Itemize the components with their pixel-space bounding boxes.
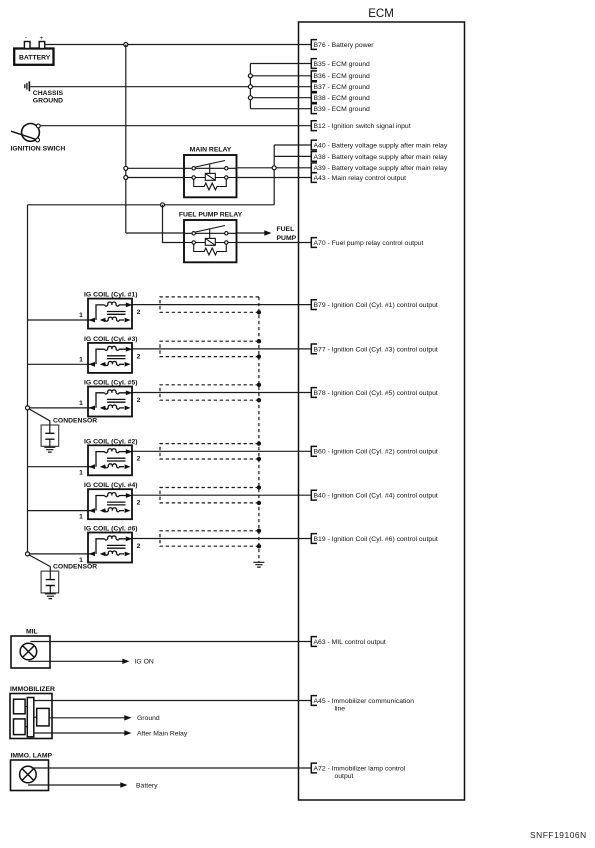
node bus B36 xyxy=(248,74,252,78)
wire B39 xyxy=(250,108,311,110)
svg-text:B38 - ECM ground: B38 - ECM ground xyxy=(314,95,371,102)
node shield1 bottom xyxy=(257,310,261,314)
wire condensor2 diagonal xyxy=(29,555,50,567)
svg-text:B60 - Ignition Coil (Cyl. #2): B60 - Ignition Coil (Cyl. #2) control ou… xyxy=(314,449,438,456)
svg-text:IG COIL (Cyl. #5): IG COIL (Cyl. #5) xyxy=(84,380,138,387)
wire B38 xyxy=(250,97,311,99)
svg-text:FUEL PUMP RELAY: FUEL PUMP RELAY xyxy=(179,212,243,219)
wire coil5 pin1 xyxy=(28,407,89,409)
svg-text:B12 - Ignition switch signal i: B12 - Ignition switch signal input xyxy=(314,123,411,130)
ignition switch S1 xyxy=(11,123,40,141)
node shield3 bottom xyxy=(257,354,261,358)
wire trunk to main relay coil xyxy=(126,177,184,179)
svg-text:Ground: Ground xyxy=(137,715,160,722)
wire immobilizer to ground arrow xyxy=(49,717,125,719)
pin A38 xyxy=(311,152,448,162)
svg-text:After Main Relay: After Main Relay xyxy=(137,730,188,737)
svg-text:2: 2 xyxy=(137,543,141,550)
node shield6 top xyxy=(257,529,261,533)
wire coil2 pin2 to B60 xyxy=(132,450,311,452)
svg-text:BATTERY: BATTERY xyxy=(19,55,51,62)
svg-text:output: output xyxy=(335,773,354,780)
svg-text:IG COIL (Cyl. #4): IG COIL (Cyl. #4) xyxy=(84,482,138,489)
pin B60 xyxy=(311,446,438,456)
shield coil6 xyxy=(160,531,259,546)
node battery arrow xyxy=(120,782,127,787)
wire fuel relay coil to A70 xyxy=(237,242,312,244)
svg-text:B35 - ECM ground: B35 - ECM ground xyxy=(314,61,371,68)
pin A45 xyxy=(311,696,414,713)
ig coil T6 cyl6 xyxy=(79,526,141,564)
node after main relay arrow xyxy=(124,730,131,735)
lamp IMMO xyxy=(11,760,49,791)
node A39 bus junction xyxy=(272,166,276,170)
svg-text:IMMOBILIZER: IMMOBILIZER xyxy=(10,686,55,693)
svg-text:CONDENSOR: CONDENSOR xyxy=(53,564,97,571)
pin B40 xyxy=(311,490,438,500)
svg-text:B37 - ECM ground: B37 - ECM ground xyxy=(314,84,371,91)
wire ECM ground bus vertical xyxy=(249,64,251,109)
pin B76 xyxy=(311,40,374,50)
wire coil5 pin2 to B78 xyxy=(132,392,311,394)
svg-text:1: 1 xyxy=(79,514,83,521)
pin B36 xyxy=(311,71,370,81)
svg-text:GROUND: GROUND xyxy=(33,98,63,105)
pin B38 xyxy=(311,93,370,103)
svg-text:1: 1 xyxy=(79,400,83,407)
svg-text:IG COIL (Cyl. #1): IG COIL (Cyl. #1) xyxy=(84,292,138,299)
ground condensor2 xyxy=(45,594,56,599)
svg-text:FUEL: FUEL xyxy=(277,226,295,233)
svg-text:IMMO. LAMP: IMMO. LAMP xyxy=(11,753,53,760)
node shield2 bottom xyxy=(257,457,261,461)
wire condensor1 diagonal xyxy=(29,409,50,421)
node ground arrow xyxy=(124,715,131,720)
svg-text:B36 - ECM ground: B36 - ECM ground xyxy=(314,73,371,80)
pin B39 xyxy=(311,104,370,114)
wire A40 xyxy=(274,144,311,146)
node shield5 bottom xyxy=(257,398,261,402)
svg-text:A63 - MIL control output: A63 - MIL control output xyxy=(314,639,386,646)
svg-text:A43 - Main relay control outpu: A43 - Main relay control output xyxy=(314,175,407,182)
ig coil T5 cyl5 xyxy=(79,380,141,417)
wire main relay coil to A43 xyxy=(237,177,312,179)
wire shield drain bus dashed xyxy=(258,297,260,562)
node bus B37 xyxy=(248,85,252,89)
svg-text:B40 - Ignition Coil (Cyl. #4): B40 - Ignition Coil (Cyl. #4) control ou… xyxy=(314,493,438,500)
wire coil4 pin1 xyxy=(28,510,89,512)
svg-text:A45 - Immobilizer communicatio: A45 - Immobilizer communication xyxy=(314,698,415,705)
svg-text:IG COIL (Cyl. #3): IG COIL (Cyl. #3) xyxy=(84,336,138,343)
svg-text:2: 2 xyxy=(137,353,141,360)
svg-text:A40 - Battery voltage supply a: A40 - Battery voltage supply after main … xyxy=(314,142,448,149)
wire immo lamp to A72 xyxy=(32,767,312,769)
ground condensor1 xyxy=(44,447,55,452)
pin A63 xyxy=(311,637,386,647)
wire coil1 pin2 to B79 xyxy=(132,304,311,306)
wire MIL to A63 xyxy=(31,641,312,643)
node battery junction xyxy=(124,43,128,47)
wire coil2 pin1 xyxy=(28,466,89,468)
capacitor C1 condensor xyxy=(41,420,59,447)
lamp MIL xyxy=(11,636,50,668)
node condensor2 tap xyxy=(26,552,30,556)
pin A40 xyxy=(311,140,448,150)
svg-text:1: 1 xyxy=(79,470,83,477)
node shield3 top xyxy=(257,339,261,343)
wire immobilizer to after main relay arrow xyxy=(34,732,125,734)
wire immo lamp to battery arrow xyxy=(28,784,121,786)
wire coil6 pin2 to B19 xyxy=(132,538,311,540)
svg-text:IG ON: IG ON xyxy=(135,659,154,666)
pin A43 xyxy=(311,173,406,183)
svg-text:1: 1 xyxy=(79,356,83,363)
label chassis ground xyxy=(33,90,64,105)
wire A38 xyxy=(274,155,311,157)
pin B78 xyxy=(311,388,438,398)
ig coil T3 cyl3 xyxy=(79,336,141,373)
immobilizer unit xyxy=(10,694,52,739)
wire B37 xyxy=(250,86,311,88)
svg-text:-: - xyxy=(25,35,27,42)
svg-text:2: 2 xyxy=(137,309,141,316)
wire trunk to fuel relay switch xyxy=(126,232,184,234)
op ECM box U1 xyxy=(299,8,465,800)
svg-text:2: 2 xyxy=(137,456,141,463)
svg-text:IGNITION SWICH: IGNITION SWICH xyxy=(11,146,66,153)
pin B77 xyxy=(311,344,438,354)
svg-text:1: 1 xyxy=(79,312,83,319)
svg-text:CONDENSOR: CONDENSOR xyxy=(53,417,97,424)
wire battery trunk vertical xyxy=(125,45,127,234)
wire coil1 pin1 xyxy=(28,319,89,321)
svg-text:A39 - Battery voltage supply a: A39 - Battery voltage supply after main … xyxy=(314,165,448,172)
svg-text:B76 - Battery power: B76 - Battery power xyxy=(314,42,375,49)
svg-text:B79 - Ignition Coil (Cyl. #1): B79 - Ignition Coil (Cyl. #1) control ou… xyxy=(314,302,438,309)
pin B37 xyxy=(311,82,370,92)
node shield4 bottom xyxy=(257,501,261,505)
wire main relay switch to A39 xyxy=(237,167,312,169)
pin B79 xyxy=(311,300,438,310)
wire after-main-relay feed horizontal xyxy=(28,204,275,206)
wire A40 A38 bus vertical xyxy=(273,145,275,205)
chassis ground symbol xyxy=(25,81,30,91)
wire coil3 pin2 to B77 xyxy=(132,348,311,350)
node fuel pump arrow xyxy=(264,230,271,235)
shield coil5 xyxy=(160,385,259,400)
pin A72 xyxy=(311,763,405,780)
wire B36 xyxy=(250,75,311,77)
svg-text:Battery: Battery xyxy=(136,782,158,789)
svg-text:2: 2 xyxy=(137,500,141,507)
shield coil2 xyxy=(160,444,259,459)
ig coil T1 cyl1 xyxy=(79,292,141,329)
ig coil T2 cyl2 xyxy=(79,438,141,476)
capacitor C2 condensor xyxy=(41,566,59,593)
wire B35 xyxy=(250,63,311,65)
shield coil3 xyxy=(160,341,259,356)
ig coil T4 cyl4 xyxy=(79,482,141,520)
node fuel relay coil feed tap xyxy=(161,203,165,207)
pin B35 xyxy=(311,59,370,69)
wire coil3 pin1 xyxy=(28,363,89,365)
pin A70 xyxy=(311,238,423,248)
svg-text:+: + xyxy=(40,35,44,42)
svg-text:CHASSIS: CHASSIS xyxy=(33,90,64,97)
wire trunk to main relay switch xyxy=(126,167,184,169)
svg-text:MIL: MIL xyxy=(26,629,38,636)
node trunk main relay switch tap xyxy=(124,166,128,170)
node condensor1 tap xyxy=(26,406,30,410)
relay K1 main relay xyxy=(184,147,237,198)
battery BT1 xyxy=(14,35,53,65)
wire fuel relay coil feed vertical xyxy=(163,205,185,243)
node shield2 top xyxy=(257,441,261,445)
pin B19 xyxy=(311,534,438,544)
node shield6 bottom xyxy=(257,544,261,548)
label fuel pump xyxy=(277,226,297,242)
wire left trunk vertical xyxy=(27,205,29,554)
wire ignition switch to B12 xyxy=(40,125,311,127)
svg-text:B19 - Ignition Coil (Cyl. #6): B19 - Ignition Coil (Cyl. #6) control ou… xyxy=(314,536,438,543)
pin B12 xyxy=(311,121,410,131)
wire immobilizer to A45 xyxy=(34,700,312,702)
svg-text:B77 - Ignition Coil (Cyl. #3): B77 - Ignition Coil (Cyl. #3) control ou… xyxy=(314,346,438,353)
svg-text:A38 - Battery voltage supply a: A38 - Battery voltage supply after main … xyxy=(314,154,448,161)
wire coil6 pin1 xyxy=(28,553,89,555)
wire MIL to IG ON xyxy=(28,660,123,662)
relay K2 fuel pump relay xyxy=(179,212,243,263)
shield coil1 xyxy=(160,297,259,312)
svg-text:B78 - Ignition Coil (Cyl. #5): B78 - Ignition Coil (Cyl. #5) control ou… xyxy=(314,390,438,397)
pin A39 xyxy=(311,163,448,173)
svg-text:IG COIL (Cyl. #2): IG COIL (Cyl. #2) xyxy=(84,438,138,445)
wire fuel relay switch to fuel pump arrow xyxy=(237,232,265,234)
svg-text:2: 2 xyxy=(137,397,141,404)
svg-text:B39 - ECM ground: B39 - ECM ground xyxy=(314,106,371,113)
node IG ON arrow xyxy=(122,659,129,664)
wire battery to B76 xyxy=(45,44,312,46)
svg-text:SNFF19106N: SNFF19106N xyxy=(530,830,587,840)
node bus B38 xyxy=(248,96,252,100)
svg-text:A72 - Immobilizer lamp control: A72 - Immobilizer lamp control xyxy=(314,765,406,772)
wire chassis ground to bus xyxy=(30,86,250,88)
wire coil4 pin2 to B40 xyxy=(132,494,311,496)
svg-text:IG COIL (Cyl. #6): IG COIL (Cyl. #6) xyxy=(84,526,138,533)
ground shield bus xyxy=(253,562,264,567)
svg-text:line: line xyxy=(335,706,346,713)
shield coil4 xyxy=(160,488,259,503)
svg-text:MAIN RELAY: MAIN RELAY xyxy=(190,147,232,154)
svg-text:A70 - Fuel pump relay control: A70 - Fuel pump relay control output xyxy=(314,240,424,247)
node shield5 top xyxy=(257,383,261,387)
svg-text:ECM: ECM xyxy=(368,8,394,20)
node trunk main relay coil tap xyxy=(124,176,128,180)
node shield4 top xyxy=(257,485,261,489)
svg-text:PUMP: PUMP xyxy=(277,235,297,242)
